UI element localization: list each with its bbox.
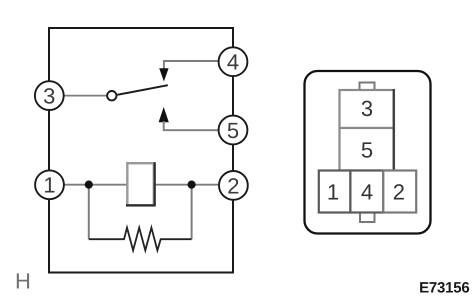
switch pivot circle <box>107 91 116 100</box>
svg-text:2: 2 <box>227 173 239 198</box>
svg-text:3: 3 <box>43 84 55 109</box>
wire: upper contact to terminal 4 <box>164 61 218 70</box>
terminal 3 <box>35 81 64 110</box>
svg-text:H: H <box>15 268 31 293</box>
resistor R (zigzag) <box>89 228 192 251</box>
svg-text:4: 4 <box>227 50 239 75</box>
connector cavity 2 <box>383 171 416 213</box>
svg-text:4: 4 <box>361 180 373 205</box>
svg-text:2: 2 <box>393 180 405 205</box>
svg-text:5: 5 <box>361 138 373 163</box>
wire: lower contact to terminal 5 <box>164 121 219 130</box>
terminal 1 <box>35 170 64 199</box>
svg-text:3: 3 <box>361 96 373 121</box>
svg-text:5: 5 <box>227 118 239 143</box>
connector cavity 4 <box>350 171 383 213</box>
wire: right drop from junction to resistor <box>191 185 193 240</box>
lower contact arrow (points up) <box>159 107 169 122</box>
connector top tab <box>360 83 375 92</box>
terminal 4 <box>219 47 248 76</box>
relay outline box <box>49 28 233 273</box>
connector cavity 1 <box>319 171 351 213</box>
junction dot left <box>85 181 93 189</box>
terminal 5 <box>219 116 248 145</box>
upper contact arrow (normally-open contact, points down) <box>159 68 168 81</box>
connector housing outline <box>305 71 431 234</box>
relay coil (rectangle) <box>126 162 156 206</box>
svg-text:1: 1 <box>327 180 339 205</box>
svg-text:E73156: E73156 <box>419 279 470 296</box>
wire: terminal 1 to terminal 2 through coil <box>64 184 218 186</box>
wire: terminal 3 to switch pivot <box>64 95 107 97</box>
switch arm <box>117 85 168 95</box>
connector cavity 3 <box>340 89 395 129</box>
connector cavity 5 <box>340 127 395 171</box>
terminal 2 <box>219 171 248 200</box>
connector bottom tab <box>360 212 375 222</box>
junction dot right <box>188 181 196 189</box>
wire: left drop from junction to resistor <box>88 185 90 240</box>
svg-text:1: 1 <box>43 173 55 198</box>
